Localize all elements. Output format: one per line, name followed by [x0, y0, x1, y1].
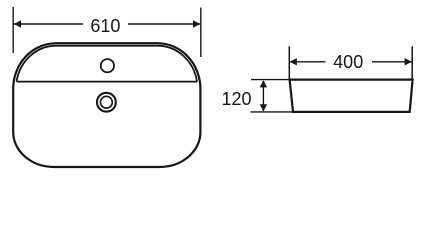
dim 400 right extension line — [411, 46, 413, 78]
drain outer circle — [97, 93, 116, 112]
dim 610 right extension line — [200, 8, 202, 58]
basin outer outline (top view) — [13, 43, 200, 167]
dim 610 line left segment — [13, 23, 83, 25]
dim 610 left arrow — [14, 20, 21, 27]
drain inner circle — [101, 96, 113, 108]
dim 400 line right segment — [372, 61, 412, 63]
side view trapezoid — [290, 80, 413, 112]
svg-text:610: 610 — [90, 16, 120, 36]
dim 120 bottom extension line — [251, 111, 294, 113]
dim 120 down arrow — [260, 104, 267, 111]
dim 610 right arrow — [193, 20, 200, 27]
dim 120 up arrow — [260, 80, 267, 87]
svg-text:400: 400 — [333, 52, 363, 72]
svg-text:120: 120 — [221, 89, 251, 109]
dim 400 left extension line — [288, 46, 290, 78]
dim 400 left arrow — [290, 58, 297, 65]
dim 400 right arrow — [405, 58, 412, 65]
dim 610 left extension line — [12, 7, 14, 53]
deck line — [17, 81, 198, 83]
basin inner rim line — [17, 46, 198, 82]
faucet hole — [101, 59, 114, 72]
dim 120 top extension line — [251, 79, 289, 81]
dim 610 line right segment — [128, 23, 201, 25]
dim 400 line left segment — [289, 61, 325, 63]
dim 120 vertical line — [262, 81, 264, 111]
